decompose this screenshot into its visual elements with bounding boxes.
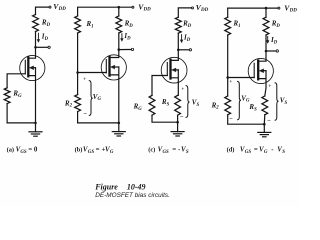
svg-text:Figure: Figure (94, 182, 118, 191)
top rail wire (d) (228, 8, 278, 17)
current arrow ID (a) (37, 33, 40, 42)
MOSFET Q (c) drain lead (171, 50, 179, 61)
svg-text:S: S (282, 150, 285, 155)
svg-text:RS: RS (248, 103, 257, 112)
node: gate junction (b) (76, 71, 79, 74)
node: bottom junction (b) (118, 122, 121, 125)
wire RG bottom to ground rail (c) (152, 115, 178, 122)
wire RD to drain node (a) (35, 32, 37, 48)
MOSFET Q (c) gate bar (166, 63, 168, 76)
wire VDD to RD (d) (265, 8, 267, 17)
svg-text:VG: VG (93, 93, 102, 102)
wire VDD to RD (c) (178, 8, 191, 17)
resistor R1 (b) (75, 16, 81, 33)
MOSFET Q (d) drain lead (258, 51, 266, 61)
svg-text:= 0: = 0 (28, 147, 38, 154)
output terminal circle (c) (189, 49, 191, 51)
MOSFET Q (a) channel bar (27, 58, 29, 77)
svg-text:10-49: 10-49 (127, 182, 146, 191)
top rail wire (b) (78, 7, 132, 16)
svg-text:VS: VS (192, 99, 200, 108)
MOSFET Q (d) body circle (248, 58, 273, 83)
ground (c) (171, 122, 184, 136)
svg-text:(a): (a) (7, 147, 14, 154)
MOSFET Q (c) channel bar (169, 60, 171, 79)
svg-text:=: = (172, 147, 176, 154)
brace VS (d) (275, 83, 278, 120)
wire gate lead (d) (228, 77, 255, 79)
supply terminal VDD (d) (278, 7, 280, 9)
resistor RG (a) (4, 88, 10, 104)
svg-text:(c): (c) (148, 147, 155, 154)
svg-text:+: + (268, 83, 271, 89)
svg-text:−: − (83, 110, 87, 117)
svg-text:−: − (180, 114, 184, 121)
MOSFET Q (a) source lead (28, 68, 35, 123)
node: bottom junction (d) (263, 123, 266, 126)
svg-text:RS: RS (161, 98, 170, 107)
wire drain output terminal (a) (36, 46, 48, 48)
svg-text:VDD: VDD (138, 2, 151, 12)
svg-text:G: G (110, 150, 114, 155)
wire drain output terminal (c) (178, 49, 189, 51)
svg-text:R2: R2 (64, 99, 73, 108)
svg-text:G: G (264, 150, 268, 155)
wire R2 bottom to ground rail (b) (78, 112, 119, 123)
svg-text:VDD: VDD (196, 3, 209, 13)
svg-text:=: = (254, 147, 258, 154)
wire drain output terminal (b) (119, 49, 131, 51)
MOSFET Q (c) substrate arrow (175, 69, 179, 71)
brace VG (b) (89, 81, 92, 116)
MOSFET Q (b) source lead (110, 67, 119, 123)
MOSFET Q (a) body circle (20, 55, 45, 80)
node: drain junction (d) (265, 50, 268, 53)
svg-text:ID: ID (123, 32, 131, 41)
current arrow ID (d) (266, 36, 269, 43)
wire RS bottom to ground (c) (177, 115, 179, 122)
output terminal circle (d) (276, 50, 278, 52)
wire RS bottom to ground (d) (263, 115, 266, 124)
svg-text:=: = (96, 147, 100, 154)
MOSFET Q (d) substrate arrow (262, 70, 266, 72)
svg-text:VDD: VDD (53, 2, 66, 12)
wire gate lead (b) (78, 72, 107, 74)
wire VDD to RD (b) (118, 7, 120, 16)
svg-text:RD: RD (124, 19, 134, 28)
ground (d) (258, 124, 271, 137)
output terminal circle (b) (131, 48, 133, 50)
svg-text:RD: RD (182, 20, 192, 29)
resistor R1 (d) (225, 17, 231, 35)
MOSFET Q (d) gate bar (253, 63, 255, 77)
svg-text:VS: VS (280, 97, 288, 106)
output terminal circle (a) (48, 46, 50, 48)
svg-text:GS: GS (163, 150, 170, 155)
resistor RD (a) (33, 15, 39, 32)
resistor RS (c) (175, 95, 181, 115)
MOSFET Q (c) source lead (171, 70, 179, 96)
svg-text:R1: R1 (86, 20, 94, 29)
ground (b) (112, 123, 125, 136)
node: drain junction (a) (34, 46, 37, 49)
node: drain junction (c) (177, 49, 180, 52)
wire gate to RG (c) (152, 76, 167, 96)
MOSFET Q (b) drain lead (110, 50, 119, 58)
supply terminal VDD (c) (192, 7, 194, 9)
MOSFET Q (b) body circle (101, 55, 126, 80)
wire VDD to RD (a) (36, 7, 49, 14)
svg-text:−: − (229, 116, 233, 123)
supply terminal VDD (a) (49, 6, 51, 8)
MOSFET Q (b) channel bar (108, 57, 110, 76)
node: bottom junction (c) (176, 121, 179, 124)
brace VS (c) (186, 86, 189, 118)
ground (a) (29, 123, 42, 136)
node: top junction (d) (265, 7, 268, 10)
resistor RS (d) (262, 96, 268, 115)
MOSFET Q (a) drain lead (28, 47, 35, 58)
svg-text:+: + (83, 77, 86, 83)
svg-text:VDD: VDD (284, 4, 297, 14)
svg-text:+: + (229, 79, 232, 85)
MOSFET Q (d) source lead (258, 71, 266, 96)
MOSFET Q (b) substrate arrow (115, 66, 119, 68)
svg-text:−: − (267, 118, 271, 125)
svg-text:ID: ID (41, 33, 49, 42)
wire RD to drain node (b) (118, 33, 120, 50)
wire R1 to gate node (b) (77, 33, 79, 95)
node: drain junction (b) (118, 48, 121, 51)
svg-text:ID: ID (183, 34, 191, 43)
resistor R2 (d) (225, 96, 231, 115)
resistor RD (c) (175, 17, 181, 33)
resistor R2 (b) (75, 95, 81, 112)
svg-text:(d): (d) (227, 147, 235, 154)
svg-text:RG: RG (12, 90, 22, 99)
MOSFET Q (b) gate bar (105, 60, 107, 73)
svg-text:GS: GS (20, 150, 27, 155)
wire RG bottom to ground rail (a) (7, 104, 35, 123)
wire drain output terminal (d) (266, 50, 276, 52)
MOSFET Q (d) channel bar (257, 61, 259, 80)
brace VG (d) (238, 81, 241, 119)
wire RD to drain node (d) (265, 35, 267, 51)
wire gate to RG (a) (7, 74, 25, 88)
MOSFET Q (c) body circle (161, 57, 187, 83)
svg-text:+: + (181, 86, 184, 92)
MOSFET Q (a) substrate arrow (32, 67, 36, 69)
svg-text:GS: GS (245, 150, 252, 155)
svg-text:S: S (186, 150, 189, 155)
svg-text:ID: ID (270, 36, 278, 45)
node: gate junction (d) (226, 76, 229, 79)
resistor RD (d) (263, 17, 269, 35)
svg-text:RD: RD (41, 19, 51, 28)
svg-text:RG: RG (133, 102, 143, 111)
svg-text:RD: RD (271, 20, 281, 29)
svg-text:R2: R2 (211, 101, 220, 110)
node: top junction (b) (118, 6, 121, 9)
wire R2 bottom to ground rail (d) (228, 115, 265, 124)
svg-text:DE-MOSFET bias circuits.: DE-MOSFET bias circuits. (95, 192, 170, 199)
resistor RD (b) (116, 16, 122, 33)
svg-text:(b): (b) (75, 147, 83, 154)
resistor RG (c) (149, 95, 155, 115)
wire R1 to gate node (d) (227, 35, 229, 96)
svg-text:R1: R1 (233, 20, 241, 29)
supply terminal VDD (b) (132, 6, 134, 8)
current arrow ID (c) (180, 35, 183, 43)
wire RD to drain node (c) (177, 33, 179, 50)
MOSFET Q (a) gate bar (24, 60, 26, 74)
node: bottom junction (a) (34, 122, 37, 125)
svg-text:-: - (271, 147, 274, 154)
current arrow ID (b) (121, 34, 124, 42)
svg-text:GS: GS (88, 150, 95, 155)
